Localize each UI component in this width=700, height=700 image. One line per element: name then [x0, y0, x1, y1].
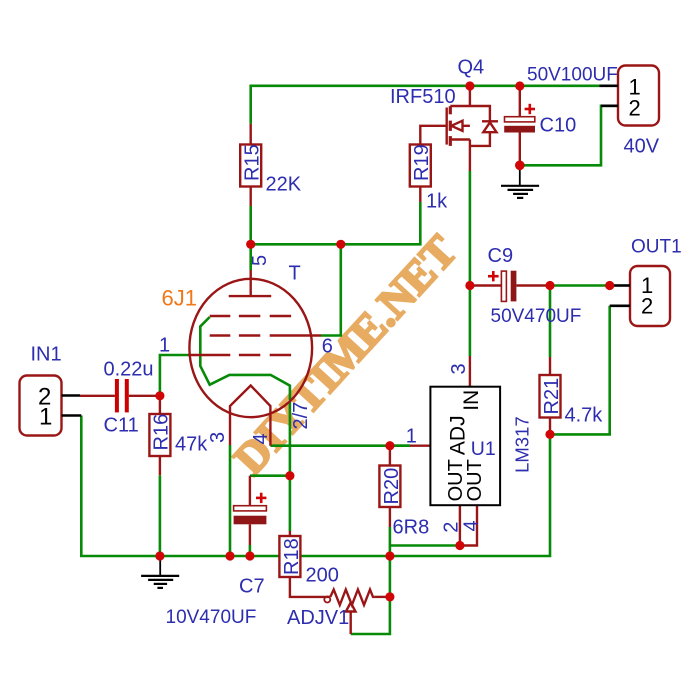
- svg-text:6: 6: [322, 336, 333, 358]
- svg-text:Q4: Q4: [458, 57, 485, 79]
- svg-text:4: 4: [250, 433, 272, 444]
- svg-text:40V: 40V: [624, 136, 660, 158]
- svg-text:LM317: LM317: [512, 416, 533, 473]
- svg-text:50V470UF: 50V470UF: [491, 306, 582, 327]
- svg-text:R21: R21: [541, 378, 563, 415]
- svg-text:22K: 22K: [266, 174, 302, 196]
- svg-text:IRF510: IRF510: [390, 86, 456, 108]
- svg-text:6J1: 6J1: [162, 286, 197, 311]
- svg-text:C9: C9: [488, 245, 514, 267]
- svg-text:6R8: 6R8: [393, 517, 430, 539]
- svg-text:C11: C11: [104, 415, 139, 437]
- svg-text:1: 1: [39, 404, 52, 431]
- svg-text:2: 2: [629, 96, 641, 121]
- svg-text:5: 5: [249, 255, 271, 266]
- svg-text:4: 4: [461, 520, 483, 531]
- svg-text:ADJ: ADJ: [447, 415, 470, 455]
- svg-text:U1: U1: [471, 438, 496, 460]
- svg-text:R18: R18: [281, 538, 303, 575]
- svg-text:10V470UF: 10V470UF: [166, 607, 257, 628]
- svg-text:3: 3: [207, 432, 229, 443]
- svg-text:1k: 1k: [426, 191, 448, 213]
- svg-text:C10: C10: [540, 115, 577, 137]
- svg-text:C7: C7: [239, 576, 265, 598]
- svg-text:0.22u: 0.22u: [104, 359, 154, 381]
- svg-text:50V100UF: 50V100UF: [527, 65, 618, 86]
- svg-text:R15: R15: [242, 144, 264, 181]
- svg-text:IN: IN: [460, 390, 483, 411]
- svg-text:OUT: OUT: [464, 459, 486, 501]
- svg-text:4.7k: 4.7k: [565, 405, 604, 427]
- svg-text:ADJV1: ADJV1: [287, 607, 349, 629]
- svg-text:1: 1: [159, 335, 170, 357]
- svg-text:200: 200: [306, 565, 339, 587]
- svg-text:2: 2: [441, 522, 463, 533]
- svg-text:2: 2: [641, 294, 653, 319]
- svg-text:47k: 47k: [175, 434, 208, 456]
- svg-text:1: 1: [406, 426, 417, 448]
- svg-text:OUT1: OUT1: [631, 237, 682, 258]
- svg-text:IN1: IN1: [31, 344, 62, 366]
- svg-text:R20: R20: [381, 468, 403, 505]
- svg-text:3: 3: [448, 363, 470, 374]
- svg-text:R16: R16: [151, 414, 173, 451]
- svg-text:2/7: 2/7: [290, 402, 312, 430]
- svg-text:T: T: [289, 263, 301, 285]
- svg-text:R19: R19: [411, 144, 433, 181]
